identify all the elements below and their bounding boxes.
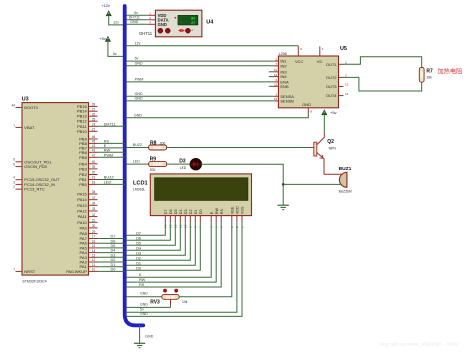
svg-text:27: 27: [191, 21, 195, 25]
ground symbol (LED/buzzer): [278, 204, 289, 206]
svg-text:D0: D0: [111, 268, 116, 272]
svg-text:6: 6: [13, 158, 15, 162]
U3 pin 34 PA13: [77, 202, 97, 208]
wire GND bus to U5 pin8: [127, 113, 309, 118]
wire D3 bus to LCD1: [127, 222, 186, 255]
svg-text:D4: D4: [136, 246, 141, 250]
power symbol +12v: [106, 11, 111, 16]
svg-text:NRST: NRST: [24, 269, 35, 274]
lcd LCD1 LM016L body: [150, 174, 251, 216]
resistor R9 200: [149, 162, 167, 167]
svg-text:14: 14: [92, 249, 96, 253]
svg-text:LM016L: LM016L: [133, 187, 145, 191]
wire D5 bus to LCD1: [127, 222, 176, 245]
transistor Q2 NPN: [310, 133, 325, 174]
wire GND bus to U5 SENSA: [127, 95, 274, 97]
wire PWM bus to U5 ENA: [127, 81, 274, 83]
U3 pin 25 PB12: [77, 117, 97, 123]
svg-text:12: 12: [274, 73, 278, 77]
power symbol +5v below U5: [322, 110, 327, 115]
svg-text:10: 10: [92, 268, 96, 272]
wire D2 bus to LCD1: [127, 222, 191, 260]
svg-text:RS: RS: [220, 208, 224, 214]
svg-text:VDD: VDD: [236, 206, 240, 214]
svg-text:E: E: [210, 211, 214, 214]
svg-text:29: 29: [92, 230, 96, 234]
svg-text:GND: GND: [145, 335, 153, 339]
svg-text:+5v: +5v: [330, 110, 337, 115]
svg-text:VCC: VCC: [295, 59, 304, 64]
svg-text:RS: RS: [139, 283, 145, 287]
svg-text:D6: D6: [111, 239, 116, 243]
svg-text:D4: D4: [111, 249, 116, 253]
svg-text:11: 11: [274, 83, 277, 87]
U5 pin 14 OUT4: [326, 92, 349, 98]
svg-text:BUZZ: BUZZ: [104, 176, 115, 180]
svg-text:25: 25: [92, 117, 96, 121]
svg-text:U3: U3: [22, 97, 29, 103]
svg-text:10: 10: [274, 68, 278, 72]
U3 pin 44 BOOT0: [11, 103, 38, 110]
svg-text:44: 44: [11, 103, 15, 107]
svg-text:D1: D1: [136, 261, 141, 265]
svg-text:R9: R9: [150, 156, 157, 162]
svg-text:PWM: PWM: [135, 77, 144, 81]
svg-text:28: 28: [92, 103, 96, 107]
svg-text:30: 30: [92, 224, 96, 228]
wire E bus to LCD1: [127, 222, 212, 277]
svg-text:15: 15: [92, 244, 96, 248]
svg-text:5: 5: [13, 163, 15, 167]
LCD1 pin 13 D6: [169, 209, 173, 228]
svg-text:OSCIN_PD0: OSCIN_PD0: [24, 164, 47, 169]
svg-text:5v: 5v: [135, 57, 139, 61]
wire R7 to U5 OUT2: [344, 77, 422, 91]
svg-text:20: 20: [92, 171, 96, 175]
svg-text:D0: D0: [136, 266, 141, 270]
U3 pin 28 PB15: [77, 103, 97, 109]
svg-text:blog csdn net weixin_45912307: blog csdn net weixin_45912307 - CSDN: [380, 342, 458, 347]
LCD1 pin 10 D3: [184, 209, 188, 228]
LCD1 pin 3 VEE: [230, 206, 234, 228]
svg-text:Q2: Q2: [327, 139, 334, 145]
wire D4 bus to LCD1: [127, 222, 181, 250]
U3 pin 13 PA3 / wire D3 to bus: [80, 253, 125, 259]
svg-text:41: 41: [92, 154, 96, 158]
svg-text:27: 27: [92, 107, 96, 111]
U3 pin 40 PB4: [79, 160, 97, 166]
svg-text:5v: 5v: [134, 11, 138, 15]
U3 pin 1 VBAT: [13, 123, 35, 130]
svg-text:GND: GND: [140, 302, 148, 306]
svg-text:L298: L298: [279, 52, 287, 56]
LCD1 pin 2 VDD: [235, 206, 239, 228]
wire BUZZ bus to R8: [127, 147, 149, 149]
svg-text:+5v: +5v: [99, 36, 106, 41]
U5 pin 3 OUT2: [326, 74, 347, 80]
power symbol +5v: [105, 37, 110, 42]
svg-text:D2: D2: [136, 256, 141, 260]
svg-text:13: 13: [92, 254, 96, 258]
svg-text:D5: D5: [174, 209, 178, 214]
svg-text:D7: D7: [111, 235, 116, 239]
U3 pin 32 PA11: [78, 213, 98, 219]
svg-text:R8: R8: [150, 141, 157, 147]
svg-text:GND: GND: [135, 92, 143, 96]
wire +5v to Q2 collector: [323, 115, 325, 133]
svg-text:LED: LED: [180, 166, 187, 170]
svg-text:12: 12: [92, 258, 96, 262]
wire Q2 emitter to BUZ1: [324, 173, 342, 175]
svg-text:PA12: PA12: [77, 209, 87, 214]
svg-text:LED: LED: [104, 181, 112, 185]
wire +12v to bus: [109, 16, 125, 25]
svg-text:12v: 12v: [135, 41, 141, 45]
wire stub U5 IN3: [269, 71, 274, 73]
svg-text:RW: RW: [215, 208, 219, 215]
U3 pin 15 PA5 / wire D5 to bus: [80, 244, 125, 250]
wire GND bus via RV3 to LCD VEE: [127, 296, 162, 298]
svg-text:33: 33: [92, 207, 96, 211]
svg-text:200: 200: [150, 168, 156, 172]
svg-text:PWM: PWM: [104, 153, 113, 157]
wire GND bus to U5 IN2: [127, 65, 274, 67]
wire R8 to Q2 base: [167, 147, 310, 149]
svg-text:46: 46: [92, 135, 96, 139]
mcu U3 STM32F103C4 body: [22, 103, 89, 276]
svg-text:OUT2: OUT2: [326, 75, 337, 80]
U3 pin 46 PB9: [79, 135, 97, 141]
wire RW bus to LCD1: [127, 222, 217, 282]
svg-text:D3: D3: [184, 209, 188, 214]
svg-text:22: 22: [92, 123, 96, 127]
driver U5 L298 body: [278, 56, 338, 108]
svg-text:D6: D6: [169, 209, 173, 214]
U3 pin 17 PA7 / wire D7 to bus: [80, 235, 125, 241]
svg-text:GND: GND: [135, 97, 143, 101]
potentiometer RV3 10k: [162, 289, 179, 305]
U3 pin 27 PB14: [77, 107, 97, 113]
ground symbol (bus): [134, 342, 145, 344]
svg-text:DHT11: DHT11: [139, 31, 153, 36]
svg-text:GND: GND: [135, 61, 143, 65]
svg-text:D2: D2: [111, 258, 116, 262]
wire 5v bus to LCD VDD: [127, 222, 237, 312]
LCD1 pin 5 RW: [215, 208, 219, 228]
svg-text:PA11: PA11: [78, 214, 88, 219]
svg-text:RW: RW: [104, 148, 111, 152]
U3 pin 11 PA1 / wire D1 to bus: [80, 263, 125, 269]
U3 pin 7 NRST: [13, 267, 36, 274]
svg-text:38: 38: [92, 190, 96, 194]
svg-text:43: 43: [92, 144, 96, 148]
U5 pin 11 ENB: [273, 83, 289, 89]
svg-text:DHT11: DHT11: [129, 15, 140, 19]
svg-text:PB10: PB10: [77, 129, 88, 134]
svg-text:PA13: PA13: [77, 203, 87, 208]
U3 pin 14 PA4 / wire D4 to bus: [80, 249, 125, 255]
wire RS bus to LCD1: [127, 222, 222, 287]
svg-text:10k: 10k: [182, 300, 188, 304]
U5 pin 6 ENA: [273, 78, 289, 84]
led D3: [190, 158, 202, 170]
svg-text:U4: U4: [206, 20, 213, 26]
wire D0 bus to LCD1: [127, 222, 201, 270]
resistor R8 200: [149, 145, 167, 150]
svg-text:4: 4: [13, 176, 15, 180]
U5 pin 1 SENSA: [273, 93, 294, 99]
buzzer BUZ1: [339, 172, 347, 187]
svg-text:D5: D5: [136, 241, 141, 245]
svg-text:2: 2: [13, 185, 15, 189]
svg-text:BOOT0: BOOT0: [24, 105, 38, 110]
U3 pin 3 PC14-OSC32_IN: [13, 180, 55, 187]
svg-text:D3: D3: [136, 251, 141, 255]
LCD1 pin 12 D5: [174, 209, 178, 228]
svg-text:D4: D4: [179, 209, 183, 214]
wire junction to BUZ1: [283, 183, 341, 185]
U3 pin 16 PA6 / wire D6 to bus: [80, 239, 125, 245]
wire RV3 wiper to GND row: [170, 305, 172, 308]
svg-text:BUZZ: BUZZ: [133, 143, 143, 147]
U3 pin 37 PA14: [77, 196, 97, 202]
U5 pin 5 IN1: [273, 57, 287, 63]
U5 pin 7 IN2: [273, 62, 287, 68]
svg-text:E: E: [104, 144, 107, 148]
svg-text:PA0-WKUP: PA0-WKUP: [66, 269, 87, 274]
wire D7 bus to LCD1: [127, 222, 166, 235]
svg-text:D1: D1: [194, 209, 198, 214]
U3 pin 10 PA0-WKUP / wire D0 to bus: [66, 268, 125, 274]
LCD1 pin 9 D2: [189, 209, 193, 228]
svg-text:7: 7: [13, 267, 15, 271]
svg-text:VBAT: VBAT: [24, 125, 35, 130]
svg-text:VS: VS: [317, 59, 323, 64]
svg-text:D7: D7: [136, 231, 141, 235]
svg-text:15: 15: [274, 97, 278, 101]
U3 pin 31 PA10: [77, 219, 97, 225]
svg-text:U5: U5: [340, 46, 347, 52]
U3 pin 5 OSCIN_PD0: [13, 163, 48, 170]
svg-text:GND: GND: [158, 22, 167, 27]
svg-text:D3: D3: [179, 159, 186, 165]
svg-text:14: 14: [345, 92, 349, 96]
svg-text:STM32F103C4: STM32F103C4: [22, 279, 46, 283]
svg-text:R7: R7: [426, 68, 433, 74]
svg-text:16: 16: [92, 239, 96, 243]
wire D6 bus to LCD1: [127, 222, 171, 240]
svg-text:RV3: RV3: [150, 299, 160, 305]
LCD1 pin 7 D0: [199, 209, 203, 228]
lcd screen: [155, 178, 248, 201]
svg-text:21: 21: [92, 128, 96, 132]
LCD1 pin 11 D4: [179, 209, 183, 228]
svg-text:18: 18: [92, 181, 96, 185]
svg-text:D6: D6: [136, 236, 141, 240]
svg-text:5v: 5v: [140, 308, 144, 312]
svg-text:10k: 10k: [426, 76, 432, 80]
svg-text:加热电阻: 加热电阻: [438, 68, 463, 76]
U3 pin 4 PC15-OSC32_OUT: [13, 176, 60, 183]
svg-text:ENB: ENB: [280, 84, 289, 89]
svg-text:VSS: VSS: [241, 206, 245, 214]
LCD1 pin 6 E: [210, 211, 214, 228]
svg-text:PA14: PA14: [77, 197, 87, 202]
bus (vertical blue): [125, 6, 144, 325]
U3 pin 26 PB13: [77, 112, 97, 118]
svg-text:D0: D0: [199, 209, 203, 214]
svg-text:IN2: IN2: [280, 63, 287, 68]
U3 pin 18 PB0 / wire LED to bus: [79, 181, 124, 187]
svg-text:17: 17: [92, 235, 96, 239]
U3 pin 21 PB10: [77, 128, 97, 134]
svg-text:13: 13: [345, 83, 349, 87]
U3 pin 19 PB1 / wire BUZZ to bus: [79, 176, 124, 182]
svg-text:IN4: IN4: [280, 74, 287, 79]
wire bus end to ground: [139, 325, 141, 343]
svg-text:D1: D1: [111, 263, 116, 267]
svg-text:RW: RW: [139, 278, 146, 282]
svg-text:12v: 12v: [113, 21, 119, 25]
wire U5 OUT1 to R7: [344, 57, 422, 68]
wire D1 bus to LCD1: [127, 222, 196, 265]
wire 12v bus to U5 VCC: [127, 45, 299, 47]
LCD1 pin 8 D1: [194, 209, 198, 228]
svg-text:LCD1: LCD1: [133, 180, 148, 186]
svg-text:LED: LED: [133, 160, 140, 164]
wire stub U5 IN4: [269, 76, 274, 78]
wire +5v to bus: [108, 42, 125, 57]
svg-text:DHT11: DHT11: [104, 122, 116, 126]
svg-text:31: 31: [92, 219, 96, 223]
wire DHT11 to U4 DATA: [127, 19, 148, 21]
svg-text:3: 3: [13, 180, 15, 184]
LCD1 pin 4 RS: [220, 208, 224, 228]
svg-text:PA15: PA15: [77, 192, 87, 197]
svg-text:42: 42: [92, 149, 96, 153]
U3 pin 20 PB2: [79, 171, 97, 177]
U3 pin 30 PA9: [80, 224, 98, 230]
svg-text:PA9: PA9: [80, 225, 88, 230]
U5 pin 9 VCC: [295, 46, 304, 64]
svg-text:D2: D2: [189, 209, 193, 214]
U3 pin 29 PA8: [80, 230, 98, 236]
U5 pin 12 IN4: [273, 73, 287, 79]
svg-text:GND: GND: [134, 113, 142, 117]
U5 pin 10 IN3: [273, 68, 287, 74]
svg-text:19: 19: [92, 176, 96, 180]
svg-text:VEE: VEE: [230, 206, 234, 214]
svg-text:200: 200: [160, 141, 166, 145]
svg-text:PB3: PB3: [79, 166, 87, 171]
svg-text:11: 11: [92, 263, 96, 267]
U3 pin 43 PB7 / wire E to bus: [79, 144, 124, 150]
U5 pin 2 OUT1: [326, 61, 347, 67]
wire stub U5 ENB: [269, 85, 274, 87]
resistor R7 10k: [419, 67, 424, 82]
svg-text:40: 40: [92, 160, 96, 164]
U5 pin 13 OUT3: [326, 83, 349, 89]
wire LED bus to R9: [127, 163, 149, 165]
svg-text:OUT4: OUT4: [326, 93, 337, 98]
svg-text:D3: D3: [111, 253, 116, 257]
U3 pin 41 PB5 / wire PWM to bus: [79, 153, 124, 159]
svg-text:GND: GND: [302, 102, 311, 107]
U3 pin 38 PA15: [77, 190, 97, 196]
U5 pin 8 GND: [302, 102, 312, 114]
LCD1 pin 14 D7: [164, 209, 168, 228]
svg-text:BUZZER: BUZZER: [339, 189, 353, 193]
wire GND bus to LCD VSS: [127, 222, 242, 316]
U5 pin 4 VS: [317, 46, 324, 63]
U3 pin 45 PB8 / wire RS to bus: [79, 140, 124, 146]
wire R9 to D3: [167, 163, 191, 165]
svg-text:PA10: PA10: [77, 220, 87, 225]
U3 pin 2 PC13_RTC: [13, 185, 45, 192]
svg-text:GND: GND: [140, 292, 148, 296]
svg-text:34: 34: [92, 202, 96, 206]
svg-text:32: 32: [92, 213, 96, 217]
svg-text:5v: 5v: [113, 52, 117, 56]
svg-text:PB5: PB5: [79, 155, 87, 160]
svg-text:OUT3: OUT3: [326, 84, 337, 89]
svg-text:D5: D5: [111, 244, 116, 248]
U3 pin 22 PB11 / wire DHT11 to bus: [77, 122, 124, 128]
svg-text:39: 39: [92, 165, 96, 169]
svg-text:PB0: PB0: [79, 182, 87, 187]
wire GND bus to U5 SENSB: [127, 100, 274, 102]
svg-text:PC13_RTC: PC13_RTC: [24, 187, 44, 192]
svg-text:80: 80: [191, 17, 195, 21]
U3 pin 6 OSCOUT_PD1: [13, 158, 52, 165]
wire GND bus to RV3 wiper: [127, 306, 171, 308]
U3 pin 39 PB3: [79, 165, 97, 171]
svg-text:37: 37: [92, 196, 96, 200]
svg-text:BUZ1: BUZ1: [339, 166, 352, 172]
U3 pin 42 PB6 / wire RW to bus: [79, 148, 124, 154]
svg-text:GND: GND: [140, 312, 148, 316]
junction node: [282, 183, 285, 186]
svg-text:SENSB: SENSB: [280, 98, 294, 103]
wire D3 to ground node: [201, 164, 283, 205]
LCD1 pin 1 VSS: [240, 206, 244, 228]
U3 pin 12 PA2 / wire D2 to bus: [80, 258, 125, 264]
svg-text:RS: RS: [104, 140, 110, 144]
svg-text:GND: GND: [130, 20, 138, 24]
U3 pin 33 PA12: [77, 207, 97, 213]
wire 5v to U4 VDD: [127, 14, 148, 16]
svg-text:+12v: +12v: [101, 3, 110, 8]
sensor U4 DHT11: [148, 10, 202, 37]
svg-text:OUT1: OUT1: [326, 62, 337, 67]
svg-text:45: 45: [92, 140, 96, 144]
wire GND to U4 GND: [127, 23, 148, 25]
svg-text:D7: D7: [164, 209, 168, 214]
svg-text:26: 26: [92, 112, 96, 116]
U5 pin 15 SENSB: [273, 97, 294, 103]
wire 5v bus to U5 IN1: [127, 60, 274, 62]
svg-text:NPN: NPN: [329, 147, 337, 151]
svg-text:1: 1: [13, 123, 15, 127]
